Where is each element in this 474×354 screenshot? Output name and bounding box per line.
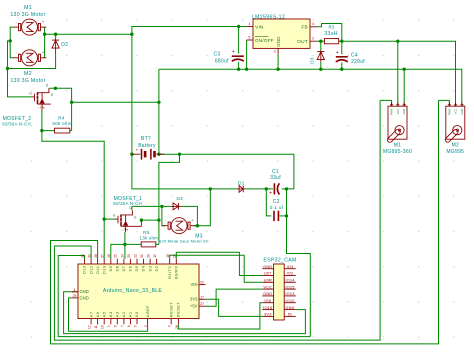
wire D13 bus	[58, 256, 310, 337]
svg-text:130 3G Motor: 130 3G Motor	[10, 78, 45, 84]
svg-text:RESET: RESET	[168, 302, 173, 317]
capacitor C1	[269, 183, 279, 196]
wire to pin D7	[124, 244, 126, 258]
svg-text:13k ohm: 13k ohm	[140, 235, 159, 240]
svg-text:50k ohm: 50k ohm	[52, 121, 71, 126]
wire RX to U0T	[176, 252, 262, 275]
wire D2 anode	[8, 54, 56, 68]
svg-text:+: +	[336, 50, 339, 56]
wire D2 cathode	[55, 34, 57, 38]
svg-text:B0/RX: B0/RX	[174, 266, 179, 280]
wire M1- to M2-	[10, 27, 13, 58]
svg-text:3: 3	[274, 50, 276, 54]
wire R4 node to D10	[42, 131, 104, 259]
wire OUT to L	[317, 40, 325, 42]
svg-text:5v: 5v	[288, 312, 293, 317]
svg-text:12: 12	[88, 325, 92, 329]
svg-text:VCC: VCC	[263, 284, 272, 289]
svg-text:30: 30	[81, 254, 85, 258]
svg-text:PWM: PWM	[447, 109, 451, 115]
wire M2+ up to rail	[43, 34, 45, 58]
wire to C2 left	[266, 189, 271, 216]
mosfet Q1 MOSFET_1	[113, 206, 137, 232]
svg-text:0.1 uf: 0.1 uf	[270, 205, 284, 211]
svg-text:D4: D4	[176, 196, 183, 202]
svg-text:23: 23	[127, 254, 131, 258]
svg-text:Arduino_Nano_33_BLE: Arduino_Nano_33_BLE	[103, 288, 163, 294]
svg-text:3V3: 3V3	[190, 297, 198, 302]
svg-text:R3: R3	[328, 24, 334, 29]
svg-text:A0: A0	[134, 311, 139, 317]
svg-text:ESP32_CAM: ESP32_CAM	[263, 258, 296, 264]
svg-text:D12: D12	[88, 265, 93, 274]
svg-text:D10: D10	[101, 265, 106, 274]
wire C3 top	[238, 27, 240, 54]
svg-text:D3: D3	[310, 57, 315, 64]
wire batt- down to D1 row	[132, 34, 237, 189]
svg-text:IO14: IO14	[285, 278, 295, 283]
wire D3 top	[320, 41, 322, 50]
svg-text:D2: D2	[61, 42, 68, 48]
wire C2 right	[279, 215, 286, 217]
Arduino U2 Arduino_Nano_33_BLE	[72, 254, 206, 329]
wire motor- to Q2 gate	[8, 41, 32, 97]
svg-text:+: +	[269, 190, 272, 196]
svg-text:A4: A4	[108, 311, 113, 317]
wire D1 cathode to C1	[245, 188, 273, 190]
svg-text:U0R: U0R	[264, 278, 272, 283]
wire to R5 left	[125, 243, 141, 245]
wire ON/OFF to gnd	[246, 40, 248, 69]
svg-text:LM2596S-12: LM2596S-12	[252, 15, 285, 21]
svg-text:IO12: IO12	[285, 298, 294, 303]
svg-text:D9: D9	[108, 265, 113, 271]
svg-text:OUT: OUT	[297, 39, 308, 45]
wire GND1 bus to ESP GND	[64, 292, 306, 334]
svg-text:C3: C3	[214, 51, 221, 57]
Q1 source-right pin	[134, 225, 141, 227]
svg-text:G: G	[113, 214, 116, 218]
wire +batt rail	[45, 33, 132, 35]
svg-text:60/30A N-CH: 60/30A N-CH	[2, 121, 31, 126]
svg-text:17: 17	[200, 295, 204, 299]
wire FB loop	[317, 24, 342, 42]
wire D12 to servo1 PWM	[54, 100, 380, 340]
svg-text:D1: D1	[238, 181, 245, 187]
capacitor C4	[336, 50, 348, 62]
svg-text:GND: GND	[276, 36, 281, 47]
diode D1	[237, 186, 246, 193]
wire RESET to ESP IO0	[178, 303, 262, 329]
wire IC gnd	[277, 54, 279, 69]
wire 3V3 to ESP 3V3	[206, 299, 263, 316]
mosfet Q2 MOSFET_2	[29, 84, 53, 110]
svg-text:27: 27	[101, 254, 105, 258]
diode D3	[317, 50, 324, 62]
svg-text:MG995-360: MG995-360	[383, 149, 412, 155]
wire gnd to servo1 GND	[403, 69, 405, 106]
servo M1 MG995-360	[386, 102, 407, 143]
svg-text:↔JFe: ↔JFe	[120, 228, 128, 232]
svg-text:5: 5	[133, 325, 137, 327]
svg-text:2: 2	[312, 37, 314, 41]
svg-text:7: 7	[120, 325, 124, 327]
svg-text:680uf: 680uf	[215, 58, 229, 64]
wire D11 to servo2 PWM	[51, 100, 439, 344]
svg-text:29: 29	[73, 294, 77, 298]
svg-text:4: 4	[74, 288, 76, 292]
svg-text:22: 22	[133, 254, 137, 258]
wire TX to U0R	[170, 255, 263, 282]
diode D4	[171, 203, 181, 210]
wire Q1 source to battery branch	[141, 219, 159, 221]
svg-text:A5: A5	[101, 311, 106, 317]
servo M2 MG995	[444, 102, 465, 143]
wire R5 right	[156, 243, 159, 245]
svg-text:AREF: AREF	[145, 305, 150, 317]
svg-text:M1: M1	[394, 142, 401, 148]
svg-text:IO16: IO16	[263, 305, 272, 310]
wire 12V to servo1 VCC	[397, 41, 399, 106]
wire gnd rail	[159, 69, 462, 106]
svg-text:VIN: VIN	[191, 282, 198, 287]
wire D3 bottom	[320, 62, 322, 69]
motor M1	[13, 19, 47, 35]
svg-text:9: 9	[107, 325, 111, 327]
battery BT?	[132, 148, 164, 160]
resistor R5	[141, 242, 156, 247]
svg-text:M2: M2	[24, 71, 32, 77]
wire GND2 bus to AREF	[69, 298, 148, 331]
svg-text:26: 26	[107, 254, 111, 258]
svg-text:GND: GND	[263, 264, 272, 269]
svg-text:RESET: RESET	[176, 302, 181, 317]
svg-text:D8: D8	[115, 265, 120, 271]
wire C4 bottom	[341, 62, 343, 69]
svg-text:D2: D2	[154, 265, 159, 271]
wire battery+ east	[159, 153, 180, 155]
svg-text:33uH: 33uH	[324, 31, 337, 37]
wire drain row to battery+	[71, 101, 159, 103]
wire D4 cathode to M3 right	[181, 206, 198, 225]
motor M3	[162, 218, 196, 234]
svg-text:4: 4	[312, 22, 314, 26]
svg-text:29: 29	[88, 254, 92, 258]
svg-text:1: 1	[248, 22, 250, 26]
wire Q1 drain stub	[131, 206, 133, 210]
svg-text:21: 21	[140, 254, 144, 258]
svg-text:8: 8	[114, 325, 118, 327]
wire servo2 PWM	[439, 100, 450, 106]
svg-text:VCC: VCC	[454, 109, 458, 115]
svg-text:IO4: IO4	[287, 264, 295, 269]
svg-text:B1/TX: B1/TX	[167, 266, 172, 279]
svg-text:M2: M2	[452, 142, 459, 148]
svg-text:A6: A6	[95, 311, 100, 317]
motor M2	[13, 50, 47, 66]
svg-text:PWM: PWM	[390, 109, 394, 115]
wire to pin D9	[111, 244, 125, 258]
svg-text:IO13: IO13	[285, 291, 294, 296]
svg-text:N20 Metal Gear Motor 6V: N20 Metal Gear Motor 6V	[158, 239, 208, 244]
resistor R4	[54, 128, 69, 133]
svg-text:GND: GND	[460, 109, 464, 115]
wire C-right bus riser	[287, 189, 311, 337]
svg-text:IO0: IO0	[264, 298, 272, 303]
inductor R3 33uH	[324, 39, 338, 44]
svg-text:3: 3	[168, 325, 172, 327]
svg-text:VCC: VCC	[396, 109, 400, 115]
svg-text:D3: D3	[147, 265, 152, 271]
wire battery+ riser	[158, 69, 160, 154]
wire battery+ to C1 right	[180, 154, 294, 189]
svg-text:G: G	[29, 92, 32, 96]
svg-text:GND: GND	[80, 289, 89, 294]
wire to M3 left	[162, 206, 165, 225]
wire 12V rail to servo2 VCC	[339, 41, 456, 106]
svg-text:3V3: 3V3	[264, 312, 272, 317]
wire R4 right	[70, 130, 72, 132]
svg-text:M1: M1	[24, 5, 32, 11]
svg-text:A3: A3	[115, 311, 120, 317]
svg-text:+5V: +5V	[190, 304, 198, 309]
svg-text:6: 6	[127, 325, 131, 327]
svg-text:C4: C4	[351, 52, 358, 58]
svg-text:28: 28	[94, 254, 98, 258]
wire rail to VIN	[132, 27, 247, 35]
wire C1 right	[282, 188, 287, 190]
wire to Q1 gate	[104, 218, 115, 220]
wire M3 right riser	[197, 189, 210, 226]
wire Q1 source down	[124, 232, 126, 244]
svg-text:20: 20	[147, 254, 151, 258]
svg-text:19: 19	[153, 254, 157, 258]
svg-text:22: 22	[200, 281, 204, 285]
wire M1+ to rail	[43, 27, 45, 34]
svg-text:10: 10	[101, 325, 105, 329]
svg-text:FB: FB	[301, 24, 308, 30]
capacitor C2	[274, 211, 278, 221]
svg-text:D7: D7	[121, 265, 126, 271]
svg-text:GND: GND	[80, 295, 89, 300]
wire Q2 source to R4	[42, 110, 55, 131]
svg-text:D6: D6	[128, 265, 133, 271]
svg-text:33uf: 33uf	[270, 175, 281, 181]
svg-text:16: 16	[166, 254, 170, 258]
svg-text:IO2: IO2	[287, 271, 294, 276]
svg-text:GND: GND	[263, 291, 272, 296]
svg-text:BT?: BT?	[141, 136, 151, 142]
svg-text:11: 11	[94, 325, 98, 329]
svg-text:Battery: Battery	[138, 143, 156, 149]
svg-text:5: 5	[248, 35, 250, 39]
svg-text:VIN: VIN	[255, 24, 264, 30]
wire C3 bottom	[238, 62, 240, 69]
capacitor C3	[232, 49, 244, 61]
svg-text:25: 25	[114, 254, 118, 258]
diode D2	[52, 39, 59, 55]
svg-text:ON/OFF: ON/OFF	[255, 38, 274, 43]
svg-text:D4: D4	[141, 265, 146, 271]
wire Q2 drain	[49, 88, 72, 130]
wire +5V to ESP VCC	[206, 289, 263, 306]
svg-text:60/30A N-CH: 60/30A N-CH	[113, 201, 142, 206]
svg-text:24: 24	[120, 254, 124, 258]
svg-text:D11: D11	[95, 265, 100, 274]
svg-text:A1: A1	[128, 311, 133, 317]
svg-text:2: 2	[144, 325, 148, 327]
svg-text:GND: GND	[285, 305, 294, 310]
svg-text:130 3G Motor: 130 3G Motor	[10, 12, 45, 18]
svg-text:A7: A7	[88, 311, 93, 317]
regulator U1 LM2596S-12	[253, 19, 310, 48]
svg-text:28: 28	[175, 325, 179, 329]
svg-text:U0T: U0T	[264, 271, 272, 276]
svg-text:D13: D13	[82, 265, 87, 274]
svg-text:15: 15	[173, 254, 177, 258]
svg-text:27: 27	[200, 302, 204, 306]
svg-text:↔JFe: ↔JFe	[37, 105, 45, 109]
wire battery+ jog down to R5	[159, 154, 180, 244]
svg-text:D5: D5	[134, 265, 139, 271]
ESP32 U3 ESP32_CAM	[262, 258, 296, 320]
svg-text:+: +	[232, 49, 235, 55]
svg-text:GND: GND	[402, 109, 406, 115]
svg-text:MG995: MG995	[446, 149, 464, 155]
svg-text:C2: C2	[273, 199, 280, 205]
wire servo1 PWM	[380, 100, 392, 106]
wire C4 top	[341, 41, 343, 54]
wire Q1 drain row to D4	[132, 205, 171, 207]
svg-text:A2: A2	[121, 311, 126, 317]
svg-text:220uf: 220uf	[351, 59, 365, 65]
svg-text:IO15: IO15	[285, 284, 294, 289]
